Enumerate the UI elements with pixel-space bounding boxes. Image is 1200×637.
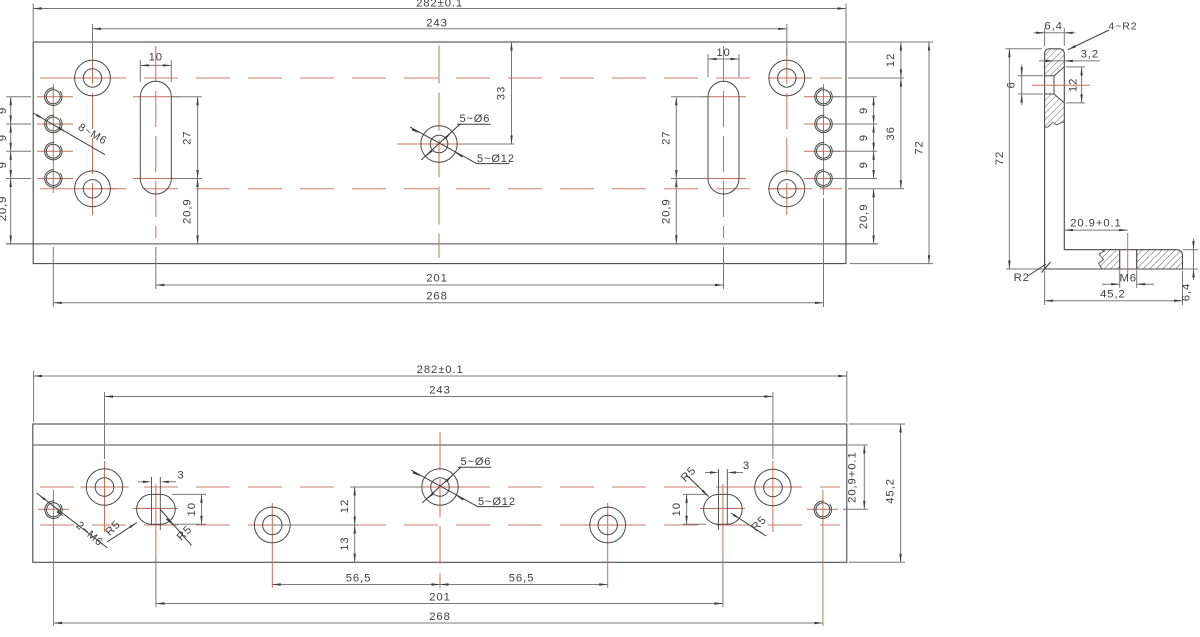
counterbored hole top-right [769, 60, 805, 96]
dim 72 right [848, 41, 933, 43]
dim 12 + 36 right [848, 77, 904, 79]
bottom view: leg face line [33, 444, 847, 446]
svg-text:268: 268 [426, 291, 448, 303]
leader 2~M6 [37, 493, 108, 548]
svg-text:9: 9 [0, 134, 9, 141]
dim 45,2 side [1044, 271, 1046, 305]
side view: hatch bottom leg right [1137, 250, 1183, 269]
svg-text:10: 10 [186, 502, 198, 516]
svg-text:45,2: 45,2 [885, 478, 897, 504]
svg-text:4~R2: 4~R2 [1109, 20, 1138, 32]
side view: counterbore section lines [1045, 75, 1054, 77]
dim M6 side [1119, 270, 1121, 288]
dim 13 bottom view [354, 525, 356, 562]
dim 282±0.1 bottom [33, 371, 35, 422]
side view: hatch upper [1045, 49, 1065, 76]
svg-text:6: 6 [1006, 81, 1018, 88]
svg-text:10: 10 [671, 502, 683, 516]
svg-text:9: 9 [858, 134, 870, 141]
svg-text:10: 10 [716, 47, 730, 59]
side view: red centerlines [1032, 84, 1090, 86]
vertical centerlines (red) [52, 84, 54, 193]
side view: hatch lower [1045, 94, 1065, 126]
dim 33 center [459, 143, 515, 145]
counterbored hole bottom-left [75, 171, 111, 207]
bottom view: hole crosshairs (red) [38, 508, 69, 510]
svg-text:201: 201 [429, 591, 451, 603]
svg-text:5~Ø6: 5~Ø6 [460, 113, 491, 125]
svg-text:13: 13 [339, 536, 351, 550]
leaders 5~Ø6 / 5~Ø12 center [410, 127, 465, 157]
counterbored hole bottom-right [769, 171, 805, 207]
dim 3,2 [1039, 60, 1100, 62]
leaders R5 right slot [687, 475, 709, 497]
dim 6,4 right side [1183, 249, 1198, 251]
svg-text:3,2: 3,2 [1081, 48, 1099, 60]
centerline row B2 (red dashed) [40, 188, 842, 190]
svg-text:20,9: 20,9 [0, 196, 9, 222]
svg-text:36: 36 [885, 126, 897, 140]
svg-text:56,5: 56,5 [509, 572, 535, 584]
side view: M6 hole edges [1119, 250, 1121, 269]
left chain dims 9,9,9,20,9 [6, 96, 31, 98]
M6 tapped holes left column [46, 90, 60, 104]
counterbored hole center [421, 126, 457, 162]
svg-text:268: 268 [429, 611, 451, 623]
svg-text:10: 10 [149, 52, 163, 64]
leaders R5 left slot [107, 523, 137, 543]
svg-text:282±0.1: 282±0.1 [417, 364, 464, 376]
leader R2 [1029, 264, 1047, 276]
dim 10 right slot bottom view [683, 493, 706, 495]
svg-text:20,9: 20,9 [858, 204, 870, 230]
leader 4~R2 [1068, 30, 1109, 50]
svg-text:20.9+0.1: 20.9+0.1 [1070, 218, 1122, 230]
svg-text:5~Ø12: 5~Ø12 [478, 496, 516, 508]
svg-text:12: 12 [339, 499, 351, 513]
bottom view: counterbored holes [86, 469, 122, 505]
svg-text:56,5: 56,5 [346, 572, 372, 584]
bottom view: plate outline [33, 424, 847, 562]
svg-text:12: 12 [885, 53, 897, 67]
svg-text:45,2: 45,2 [1100, 289, 1126, 301]
dim 201 bottom [155, 557, 157, 607]
bottom view: vertical centerlines (red) [53, 490, 55, 532]
svg-text:72: 72 [914, 140, 926, 154]
svg-text:9: 9 [858, 107, 870, 114]
dim 20.9+0.1 side [1064, 229, 1127, 231]
svg-text:201: 201 [426, 273, 448, 285]
dim 20.9+0.1 bottom right [848, 444, 868, 446]
dim 3 left slot [138, 481, 148, 483]
dim 6 side [1018, 75, 1043, 77]
svg-text:20,9+0.1: 20,9+0.1 [847, 451, 859, 503]
svg-text:3: 3 [177, 470, 184, 482]
svg-text:27: 27 [182, 131, 194, 145]
svg-text:R2: R2 [1014, 272, 1030, 284]
svg-text:9: 9 [0, 161, 9, 168]
svg-text:9: 9 [858, 161, 870, 168]
svg-text:6,4: 6,4 [1044, 20, 1062, 32]
slot left (10x27) [140, 81, 171, 194]
dim 268 (front bottom) [52, 247, 54, 307]
svg-text:12: 12 [1067, 78, 1079, 92]
centerline row B1 (red dashed) [40, 77, 842, 79]
svg-text:33: 33 [496, 86, 508, 100]
slot right (10x27) [708, 81, 739, 194]
bottom view: slot arc-center ticks [151, 477, 153, 525]
side view: break line [1045, 122, 1065, 127]
dim 6,4 top [1044, 28, 1046, 46]
svg-text:27: 27 [660, 131, 672, 145]
dim 27 + 20,9 right slot [671, 96, 708, 98]
dim 243 (front) [92, 24, 94, 58]
dim 10 right slot [707, 54, 709, 77]
dims 56,5 bottom [272, 584, 440, 586]
dim 268 bottom [54, 622, 823, 624]
leader 8~M6 [33, 113, 105, 155]
counterbored hole top-left [75, 60, 111, 96]
svg-text:243: 243 [426, 17, 448, 29]
dim 10 left slot bottom view [172, 493, 206, 495]
dim 201 (front bottom) [155, 247, 157, 289]
svg-text:5~Ø6: 5~Ø6 [461, 456, 492, 468]
side view: hatch bottom leg left [1099, 250, 1120, 269]
svg-text:9: 9 [0, 107, 9, 114]
hole crosshairs (red) [37, 96, 73, 98]
dim 12 side [1066, 66, 1085, 68]
dim 282±0.1 (front top) [32, 4, 34, 42]
front view: horizontal leg edge line [6, 243, 878, 245]
svg-text:3: 3 [743, 460, 750, 472]
dim 12 bottom view [350, 486, 422, 488]
svg-text:282±0.1: 282±0.1 [416, 0, 463, 10]
svg-text:20,9: 20,9 [182, 198, 194, 224]
side view: L-profile outline [1045, 49, 1183, 269]
dim 27 + 20,9 left slot [172, 96, 202, 98]
dim 72 side [1006, 48, 1042, 50]
front view: plate outline [33, 42, 846, 264]
bottom view: centerline rows (red dashed) [40, 486, 840, 488]
svg-text:6,4: 6,4 [1181, 283, 1193, 301]
bottom view: M6 holes [47, 503, 61, 517]
dim 3 right slot [705, 472, 715, 474]
dim 243 bottom [104, 392, 106, 459]
svg-text:20,9: 20,9 [660, 198, 672, 224]
right chain dims 9,9,9 + 20,9 [833, 96, 877, 98]
svg-text:243: 243 [429, 385, 451, 397]
svg-text:5~Ø12: 5~Ø12 [477, 153, 515, 165]
leaders 5~Ø6 / 5~Ø12 bottom center [411, 470, 466, 500]
svg-text:72: 72 [994, 151, 1006, 165]
svg-text:M6: M6 [1119, 273, 1137, 285]
M6 tapped holes right column [817, 90, 831, 104]
bottom view: slots 10x13 [137, 494, 176, 524]
dim 10 left slot [139, 60, 141, 82]
dim 45,2 bottom right [849, 423, 905, 425]
